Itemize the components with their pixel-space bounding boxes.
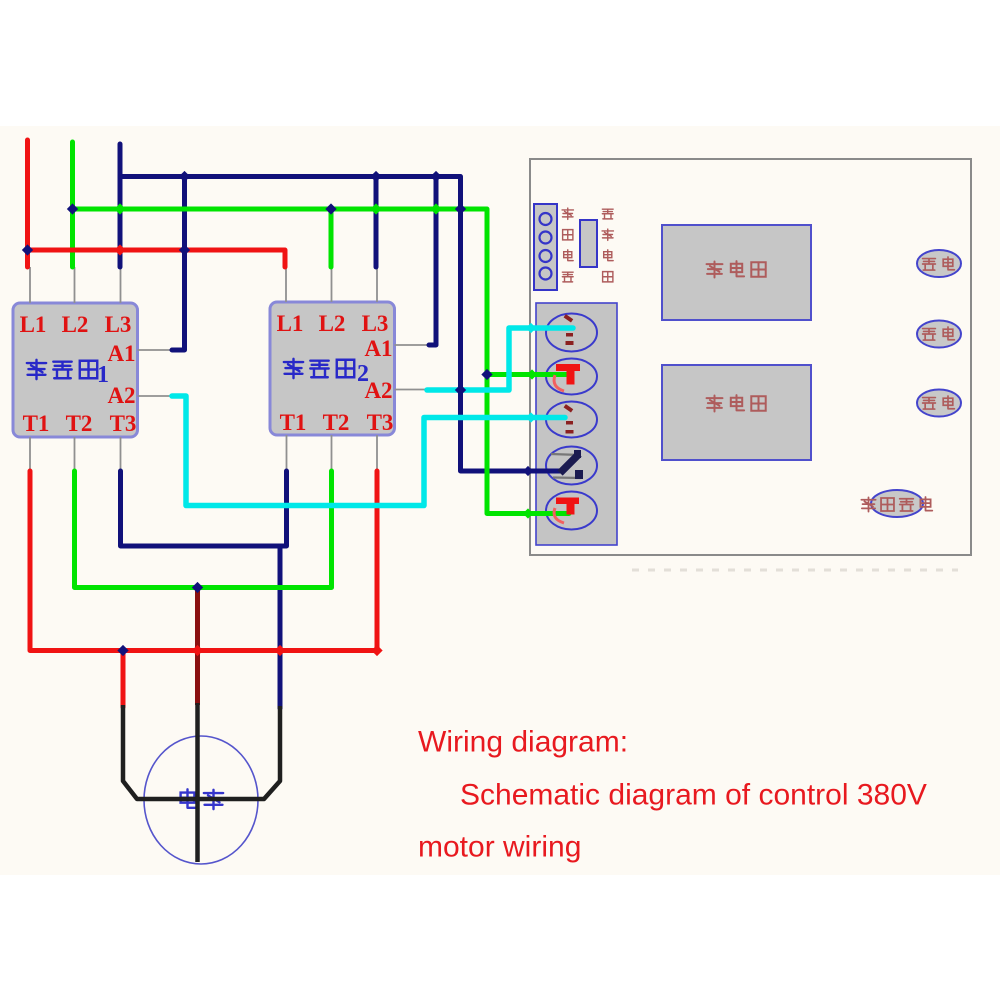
svg-text:Schematic diagram of control 3: Schematic diagram of control 380V (460, 779, 927, 812)
svg-text:Wiring diagram:: Wiring diagram: (418, 726, 628, 759)
svg-text:L3: L3 (362, 311, 389, 336)
svg-text:A2: A2 (107, 383, 135, 408)
svg-text:L3: L3 (105, 312, 132, 337)
svg-text:T2: T2 (66, 411, 93, 436)
svg-text:T3: T3 (367, 410, 394, 435)
svg-text:L2: L2 (62, 312, 89, 337)
svg-text:A1: A1 (107, 341, 135, 366)
svg-text:T3: T3 (110, 411, 137, 436)
svg-text:2: 2 (357, 361, 369, 387)
svg-text:motor wiring: motor wiring (418, 831, 581, 864)
svg-text:T2: T2 (323, 410, 350, 435)
svg-text:L1: L1 (277, 311, 304, 336)
svg-text:A1: A1 (364, 336, 392, 361)
svg-text:L1: L1 (20, 312, 47, 337)
svg-text:1: 1 (97, 362, 109, 388)
svg-text:T1: T1 (280, 410, 307, 435)
svg-text:T1: T1 (23, 411, 50, 436)
svg-text:L2: L2 (319, 311, 346, 336)
